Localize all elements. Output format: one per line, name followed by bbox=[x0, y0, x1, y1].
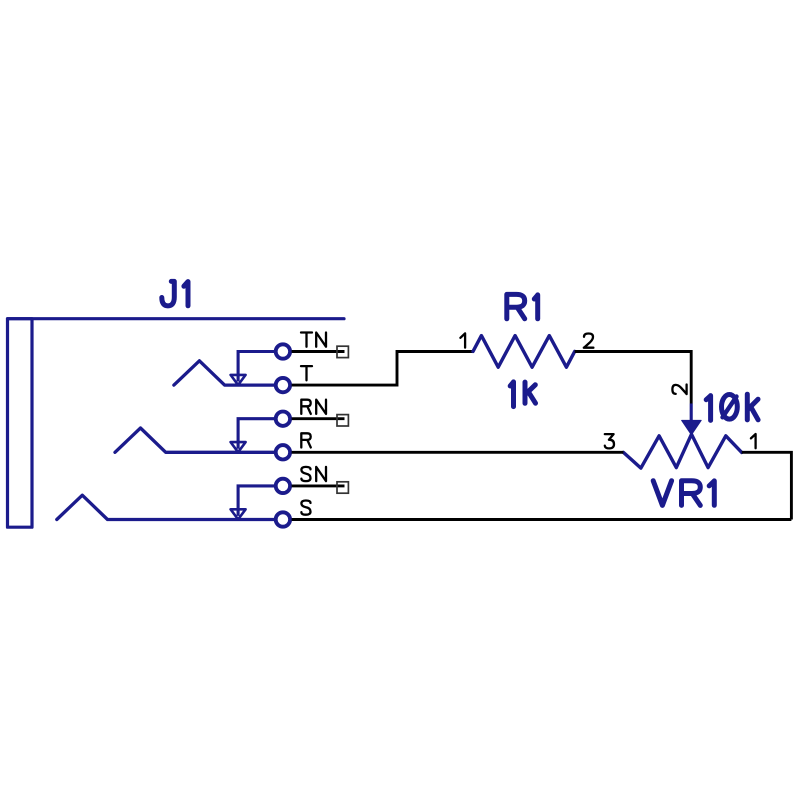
pin circle SN bbox=[276, 479, 290, 493]
label J1 bbox=[162, 281, 188, 306]
pin circle RN bbox=[276, 412, 290, 426]
wire S run bbox=[292, 518, 792, 521]
wire RN stub bbox=[292, 417, 345, 420]
contact S zigzag bbox=[57, 495, 274, 519]
pin circle TN bbox=[276, 344, 290, 358]
connector J1 body bbox=[8, 319, 345, 528]
value 10k bbox=[706, 394, 758, 420]
pin label SN bbox=[301, 467, 326, 481]
pin number R1-1 bbox=[460, 333, 465, 347]
pin circle S bbox=[276, 512, 290, 526]
pin label TN bbox=[301, 333, 326, 347]
pin circle R bbox=[276, 445, 290, 459]
normalling arrow RN-R bbox=[231, 419, 275, 453]
potentiometer VR1 wiper arrow bbox=[682, 404, 702, 435]
label R1 bbox=[507, 294, 538, 318]
wire R to VR1 pin3 bbox=[292, 451, 624, 454]
wire T to R1 pin1 bbox=[292, 352, 473, 386]
pin circle T bbox=[276, 378, 290, 392]
contact T zigzag bbox=[174, 361, 274, 385]
no-connect square SN bbox=[337, 482, 348, 493]
pin number R1-2 bbox=[584, 334, 594, 348]
pin label R bbox=[301, 433, 311, 447]
potentiometer VR1 body bbox=[623, 434, 741, 468]
wire VR1 pin1 to right edge bbox=[742, 452, 792, 519]
contact R zigzag bbox=[115, 428, 274, 452]
pin number VR1-2 (rotated) bbox=[672, 385, 686, 395]
pin number VR1-1 bbox=[751, 434, 756, 448]
label VR1 bbox=[653, 481, 714, 506]
normalling arrow SN-S bbox=[231, 486, 275, 520]
wire R1 pin2 to VR1 pin2 bbox=[575, 352, 692, 404]
resistor R1 bbox=[473, 336, 575, 368]
no-connect square RN bbox=[337, 415, 348, 426]
pin label T bbox=[301, 366, 312, 380]
no-connect square TN bbox=[337, 346, 348, 357]
pin label RN bbox=[301, 400, 326, 414]
normalling arrow TN-T bbox=[231, 352, 275, 386]
value 1k bbox=[510, 382, 535, 407]
pin label S bbox=[301, 501, 310, 515]
wire TN stub bbox=[292, 350, 345, 353]
wire SN stub bbox=[292, 484, 345, 487]
pin number VR1-3 bbox=[605, 434, 614, 448]
